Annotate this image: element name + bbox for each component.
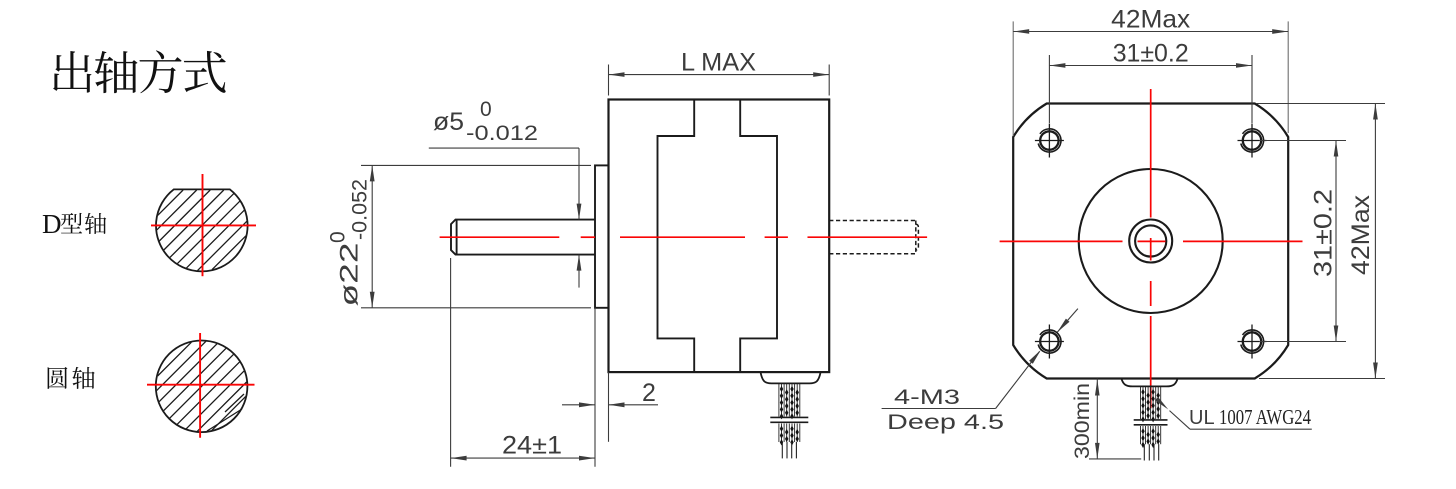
label D型轴 [42, 209, 106, 239]
svg-text:0: 0 [327, 231, 350, 243]
side view: wire tails [782, 442, 796, 458]
front view: cable tie band [1134, 420, 1168, 425]
side view: wire grommet [761, 372, 821, 383]
svg-text:42Max: 42Max [1347, 194, 1375, 275]
svg-text:L MAX: L MAX [681, 49, 756, 77]
D-shaft centerline horizontal [151, 224, 256, 226]
annotation 4-M3 Deep 4.5 with leader [882, 309, 1078, 409]
annotation UL 1007 AWG24 with leader [1170, 411, 1312, 430]
front view: wire grommet [1121, 379, 1177, 387]
D-shaft section (flat-top hatched circle) [156, 189, 248, 271]
round-shaft section (hatched circle) [156, 341, 248, 433]
title 出轴方式 [53, 50, 226, 93]
dimension 31±0.2 (right, vertical) [1259, 141, 1346, 342]
dimension ø22 0/-0.052 [361, 165, 591, 307]
svg-text:UL: UL [1189, 407, 1215, 429]
side view: motor body outline [609, 100, 830, 373]
front view: red horizontal center line [1000, 240, 1303, 242]
front view: bottom-right mounting hole M3 [1238, 325, 1267, 359]
side view: red center line [440, 236, 927, 238]
svg-text:31±0.2: 31±0.2 [1113, 40, 1189, 68]
dimension 42Max (top) [1013, 21, 1288, 136]
front view: red vertical center line [1150, 89, 1152, 408]
dimension L MAX [609, 65, 830, 96]
D-shaft centerline vertical [202, 174, 204, 276]
front view: wire braid lower [1141, 426, 1161, 448]
svg-text:D: D [42, 209, 62, 239]
round-shaft centerline horizontal [147, 384, 255, 386]
side view: front flange boss [595, 165, 609, 307]
svg-text:4-M3: 4-M3 [894, 386, 960, 409]
front view: wire tails [1144, 444, 1158, 460]
front view: motor face outline (chamfered square) [1013, 104, 1288, 379]
svg-text:ø22: ø22 [336, 243, 364, 307]
svg-text:300min: 300min [1071, 383, 1094, 459]
side view: wire braid upper [779, 384, 800, 420]
side view: rear shaft (hidden, dashed) [829, 221, 918, 254]
round-shaft centerline vertical [199, 333, 201, 438]
svg-text:0: 0 [480, 98, 492, 121]
front view: pilot boss circle [1079, 169, 1223, 313]
svg-text:31±0.2: 31±0.2 [1310, 189, 1338, 277]
label 圆轴 [48, 367, 95, 389]
front view: bottom-left mounting hole M3 [1035, 325, 1064, 359]
dimension ø5 0/-0.012 [429, 148, 579, 288]
svg-text:42Max: 42Max [1111, 6, 1191, 34]
svg-text:Deep 4.5: Deep 4.5 [887, 411, 1004, 434]
side view: front shaft [451, 220, 595, 255]
side view: end-bell inner contour [658, 100, 778, 373]
dimension 300min (wire length) [1089, 379, 1141, 459]
dimension 31±0.2 (top) [1049, 55, 1252, 123]
front view: wire braid upper [1141, 387, 1161, 423]
side view: cable tie band [770, 417, 808, 422]
dimension 24±1 [451, 258, 595, 467]
dimension 42Max (right, vertical) [1256, 104, 1385, 379]
svg-text:-0.012: -0.012 [466, 122, 538, 145]
svg-text:24±1: 24±1 [502, 432, 562, 460]
front view: shaft circles [1129, 220, 1172, 263]
front view: top-left mounting hole M3 [1035, 124, 1064, 158]
svg-text:ø5: ø5 [433, 108, 464, 136]
svg-text:2: 2 [642, 379, 656, 407]
dimension 2 (flange thickness) [562, 372, 658, 442]
side view: wire braid lower [779, 424, 800, 446]
svg-text:-0.052: -0.052 [349, 179, 372, 240]
front view: top-right mounting hole M3 [1238, 124, 1267, 158]
svg-text:1007 AWG24: 1007 AWG24 [1219, 405, 1311, 429]
